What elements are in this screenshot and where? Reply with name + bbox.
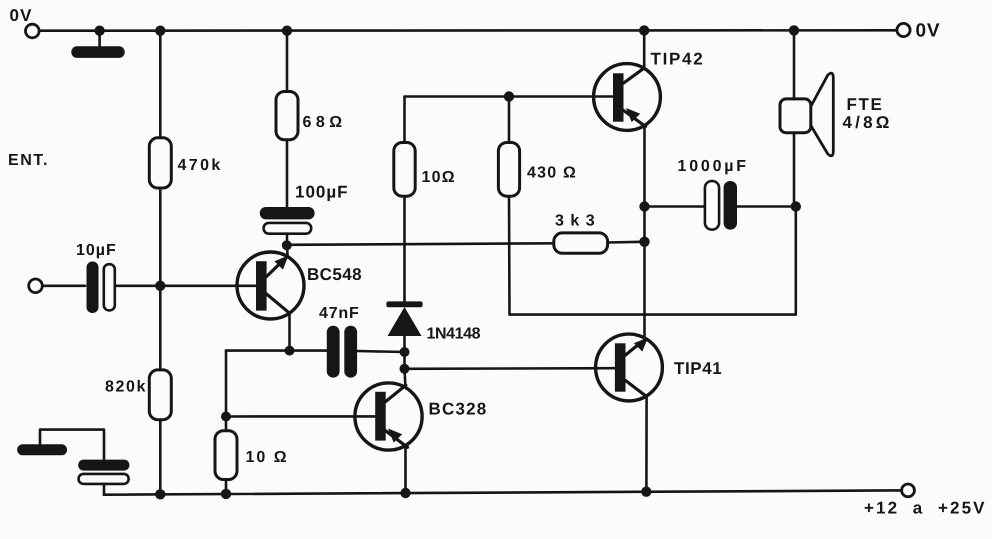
junction diode anode / 47nF (400, 347, 410, 357)
wire driver node to TIP41 base (405, 367, 616, 370)
transistor BC328 (355, 383, 422, 494)
wire top rail to 68 ohm (286, 31, 289, 92)
wire rail to speaker (793, 30, 796, 99)
capacitor 1000uF (705, 181, 737, 230)
svg-text:+12 a +25V: +12 a +25V (864, 499, 987, 518)
resistor 3k3 (554, 233, 608, 253)
svg-text:1000µF: 1000µF (678, 158, 749, 175)
wire top 0V rail (40, 29, 896, 32)
speaker FTE (780, 73, 833, 156)
wire output to 1000uF (645, 205, 706, 208)
junction 430 ohm top (504, 91, 514, 101)
wire 47nF right to node (357, 351, 404, 352)
wire BC548 collector lead (288, 313, 291, 350)
wire VAS node to 3k3 (287, 243, 554, 245)
svg-text:820k: 820k (105, 379, 147, 396)
transistor TIP41 (596, 334, 663, 492)
wire 430 ohm to right column (509, 196, 796, 314)
svg-text:ENT.: ENT. (8, 152, 49, 169)
junction BC548 collector (285, 346, 295, 356)
transistor TIP42 (594, 64, 661, 131)
resistor 470k (149, 138, 171, 188)
supply bar left (17, 444, 67, 455)
wire 470k to input node (159, 188, 162, 370)
wire 47nF node segment (403, 352, 406, 369)
capacitor 10uF (87, 262, 115, 314)
svg-text:BC328: BC328 (429, 400, 488, 419)
svg-text:1N4148: 1N4148 (427, 326, 481, 343)
resistor 430 ohm (498, 143, 519, 197)
wire speaker to output node (793, 133, 796, 202)
wire TIP42 emitter to rail (643, 31, 646, 69)
wire 10 ohm to TIP42 base (405, 97, 613, 143)
junction top rail at 470k column (155, 26, 165, 36)
transistor BC548 (237, 246, 304, 320)
wire TIP42 collector column (643, 127, 646, 339)
diode 1N4148 (386, 301, 422, 352)
svg-text:10Ω: 10Ω (422, 169, 456, 186)
junction input node (155, 281, 165, 291)
junction bottom rail TIP41 (641, 487, 651, 497)
junction speaker node (791, 201, 801, 211)
svg-text:430 Ω: 430 Ω (527, 165, 577, 182)
junction BC328 base node (221, 412, 231, 422)
svg-text:0V: 0V (916, 21, 941, 42)
svg-text:3k3: 3k3 (555, 213, 601, 230)
wire bottom supply rail (104, 490, 902, 494)
wire feedback corner down (225, 351, 228, 417)
junction top rail at chassis bar (94, 26, 104, 36)
junction 3k3 node (639, 237, 649, 247)
wire driver node to BC328 (403, 369, 406, 385)
resistor 68 ohm (276, 92, 298, 140)
wire diode top to 10 ohm (403, 196, 406, 302)
wire supply caps link (40, 430, 104, 460)
svg-text:TIP41: TIP41 (674, 359, 722, 378)
svg-text:470k: 470k (178, 157, 223, 174)
svg-text:68Ω: 68Ω (303, 114, 347, 131)
capacitor 47nF (327, 326, 357, 378)
capacitor supply electrolytic (78, 460, 129, 495)
resistor 10 ohm upper (394, 143, 415, 197)
svg-text:100µF: 100µF (295, 183, 349, 202)
terminal 0V right (897, 23, 910, 36)
capacitor 100uF (260, 207, 315, 245)
svg-text:FTE: FTE (847, 95, 884, 114)
wire junction to 430 ohm (508, 97, 511, 144)
svg-text:10µF: 10µF (76, 242, 117, 259)
junction driver node (400, 364, 410, 374)
junction top rail speaker (789, 25, 799, 35)
junction bottom rail BC328 (400, 488, 410, 498)
wire input terminal to 10uF (42, 284, 85, 287)
junction bottom rail 820k (155, 489, 165, 499)
wire BC328 base (226, 415, 375, 418)
svg-text:4/8Ω: 4/8Ω (843, 113, 893, 132)
junction top rail TIP42 (639, 25, 649, 35)
resistor 10 ohm lower (215, 417, 237, 494)
terminal +12 a +25V (902, 484, 915, 497)
wire 10uF to BC548 base (115, 284, 256, 287)
chassis bar top left (71, 31, 124, 58)
wire 68 ohm to 100uF (286, 140, 289, 208)
wire 1000uF to speaker node (737, 205, 796, 208)
svg-text:10 Ω: 10 Ω (246, 449, 289, 466)
junction top rail at 68 ohm (282, 26, 292, 36)
junction output node at 1000uF (639, 201, 649, 211)
wire 47nF left to feedback corner (226, 349, 327, 352)
wire 820k to bottom rail (159, 420, 162, 495)
wire top rail to 470k (159, 31, 162, 138)
resistor 820k (149, 370, 171, 420)
terminal input ENT (29, 279, 43, 293)
junction BC548 emitter node (282, 240, 292, 250)
svg-text:TIP42: TIP42 (651, 50, 705, 69)
svg-text:47nF: 47nF (319, 305, 360, 322)
terminal 0V left (26, 24, 40, 38)
wire 3k3 to TIP41 column (608, 241, 645, 244)
junction bottom rail 10 ohm (221, 489, 231, 499)
svg-text:BC548: BC548 (307, 265, 362, 284)
svg-text:0V: 0V (10, 6, 33, 25)
